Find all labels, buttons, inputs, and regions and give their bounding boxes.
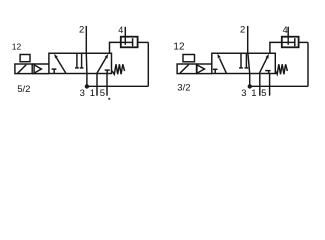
wire component to loop (right valve) xyxy=(299,41,308,43)
port 3 stub (right valve) xyxy=(249,74,251,87)
svg-text:1: 1 xyxy=(90,88,95,99)
plug component stub through top (right valve) xyxy=(287,27,289,45)
loop right vertical wire (left valve) xyxy=(147,42,149,86)
svg-text:5: 5 xyxy=(100,88,105,99)
straight flow path 2-3 (right valve) xyxy=(248,53,250,73)
solenoid coil diagonal (right valve) xyxy=(180,65,189,74)
blocked tee hanging right (left valve) xyxy=(81,53,83,67)
plug component inner line (left valve) xyxy=(121,41,133,43)
plug component inner bar (left valve) xyxy=(132,38,134,46)
blocked tee hanging left (left valve) xyxy=(76,53,78,67)
straight flow path 2-3 (left valve) xyxy=(85,53,88,73)
junction dot (left valve) xyxy=(85,84,89,88)
svg-text:3/2: 3/2 xyxy=(177,82,190,93)
svg-text:1: 1 xyxy=(251,88,256,99)
pilot triangle (left valve) xyxy=(34,65,41,73)
wire component to loop (left valve) xyxy=(138,41,149,43)
pilot channel top wire (left valve) xyxy=(32,63,49,65)
blocked tee hanging right (right valve) xyxy=(245,53,247,67)
port 2 wire (left valve) xyxy=(85,26,87,53)
return spring (right valve) xyxy=(275,64,287,74)
pilot triangle (right valve) xyxy=(197,65,205,73)
blocked tee hanging left (right valve) xyxy=(240,53,242,67)
flow arrow box2 (right valve) xyxy=(259,57,267,73)
svg-text:12: 12 xyxy=(173,42,185,53)
solenoid coil diagonal (left valve) xyxy=(18,65,27,74)
valve body outline (left valve) xyxy=(49,53,112,73)
stray mark below port 5 (left valve) xyxy=(108,98,110,100)
plug component body (right valve) xyxy=(282,37,299,48)
blocked port tee bottom-right box2 (right valve) xyxy=(268,71,270,74)
port 3 stub (left valve) xyxy=(86,74,88,87)
blocked port tee bottom-left box1 (left valve) xyxy=(53,69,55,73)
loop bottom horizontal wire (right valve) xyxy=(250,85,308,87)
plug component body (left valve) xyxy=(121,37,138,48)
blocked port tee bottom-left box1 (right valve) xyxy=(214,70,216,74)
plug component inner bar (right valve) xyxy=(294,38,296,46)
plug component inner line (right valve) xyxy=(282,41,295,43)
svg-text:2: 2 xyxy=(240,25,245,36)
return spring (left valve) xyxy=(112,64,125,74)
pilot box on solenoid (left valve) xyxy=(20,55,30,62)
port 5 stub (right valve) xyxy=(269,74,271,96)
pilot channel bottom wire (right valve) xyxy=(197,73,212,75)
svg-text:4: 4 xyxy=(118,25,123,35)
blocked port tee bottom-right box2 (left valve) xyxy=(106,70,108,73)
pilot channel top wire (right valve) xyxy=(197,63,212,65)
svg-text:5: 5 xyxy=(261,88,266,99)
loop right vertical wire (right valve) xyxy=(307,42,309,86)
flow arrow box2 (left valve) xyxy=(97,57,106,73)
port 4 riser wire (left valve) xyxy=(110,42,121,53)
svg-text:3: 3 xyxy=(241,88,246,99)
valve body outline (right valve) xyxy=(212,53,275,73)
port 2 wire (right valve) xyxy=(247,26,249,53)
junction dot (right valve) xyxy=(248,84,252,88)
flow arrow box1 (left valve) xyxy=(56,58,66,74)
port 1 stub (left valve) xyxy=(96,74,98,96)
svg-text:12: 12 xyxy=(12,41,22,51)
svg-text:5/2: 5/2 xyxy=(17,84,30,95)
port 5 stub (left valve) xyxy=(106,74,108,96)
svg-text:3: 3 xyxy=(80,88,85,99)
pilot channel bottom wire (left valve) xyxy=(32,73,49,75)
pilot box on solenoid (right valve) xyxy=(183,55,195,62)
port 4 riser wire (right valve) xyxy=(270,42,282,53)
loop bottom horizontal wire (left valve) xyxy=(87,85,148,87)
plug component stub through top (left valve) xyxy=(124,27,126,45)
solenoid coil box (right valve) xyxy=(177,64,196,74)
svg-text:4: 4 xyxy=(283,25,288,35)
solenoid coil box (left valve) xyxy=(15,64,32,74)
svg-text:2: 2 xyxy=(79,25,84,36)
port 1 stub (right valve) xyxy=(259,74,261,96)
flow arrow box1 (right valve) xyxy=(220,58,227,73)
